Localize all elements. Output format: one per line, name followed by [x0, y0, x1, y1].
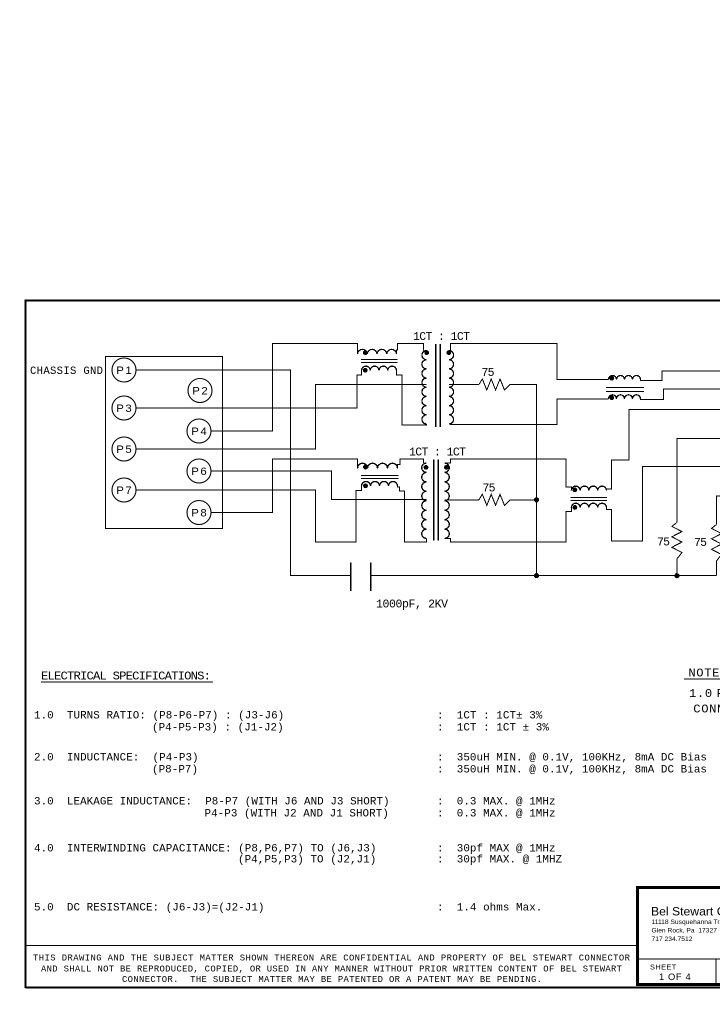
transformer T1 core [436, 344, 440, 427]
svg-text:75: 75 [657, 537, 670, 550]
svg-text:: 350uH MIN. @ 0.1V, 100KHz,: : 350uH MIN. @ 0.1V, 100KHz, 8mA DC Bias [437, 765, 707, 777]
wire P6 to T2 primary center tap [211, 471, 427, 500]
resistor R4 75 ohm [712, 525, 720, 562]
connector shield box [106, 357, 223, 529]
junction capacitor node [534, 573, 539, 578]
wire P4 to choke L1 top [211, 343, 358, 431]
wire P5 to T1 primary center tap [136, 385, 427, 450]
wire J line to resistor R3 [677, 439, 720, 523]
transformer T1 secondary dot [446, 350, 451, 355]
company address [652, 919, 720, 943]
svg-text:P4-P3 (WITH J2 AND J1 SHORT): P4-P3 (WITH J2 AND J1 SHORT) [205, 809, 389, 821]
svg-text:FOR: FOR [717, 687, 720, 701]
resistor R1 75 ohm [479, 379, 510, 390]
wire choke L2 top to T2 primary top [398, 459, 424, 469]
capacitor C1 plates [351, 563, 371, 592]
svg-text:1000pF, 2KV: 1000pF, 2KV [376, 599, 448, 612]
pin P4 [187, 419, 211, 443]
choke L4 top winding [571, 486, 606, 490]
svg-text:(P4,P5,P3) TO (J2,J1): (P4,P5,P3) TO (J2,J1) [238, 855, 376, 867]
svg-text:1.0: 1.0 [689, 687, 713, 701]
wire P3 to choke L1 bottom [136, 370, 362, 408]
resistor R3 75 ohm [672, 523, 682, 560]
wire T1 secondary center tap to resistor R1 [449, 384, 479, 386]
wire T2 secondary center tap to resistor R2 [445, 499, 480, 501]
svg-text:CONNECTOR: CONNECTOR [693, 703, 720, 717]
choke L2 core [361, 476, 399, 479]
svg-text:1.0 TURNS RATIO: (P8-P6-P7) :: 1.0 TURNS RATIO: (P8-P6-P7) : (J3-J6) [34, 711, 284, 723]
svg-text:P7: P7 [116, 485, 132, 497]
transformer T2 primary dot [424, 465, 429, 470]
transformer T1 secondary winding [449, 351, 454, 425]
wire J line to resistor R4 [717, 496, 720, 525]
svg-text:P8: P8 [191, 508, 207, 520]
svg-text:1CT : 1CT: 1CT : 1CT [409, 447, 466, 460]
pin P1 [112, 358, 136, 382]
transformer T2 secondary dot [444, 465, 449, 470]
pin P8 [187, 501, 211, 525]
svg-text:: 30pf MAX. @ 1MHZ: : 30pf MAX. @ 1MHZ [437, 855, 563, 867]
wire P7 to choke L2 bottom [136, 486, 362, 542]
wire P8 to choke L2 top [211, 459, 358, 513]
wire T1 secondary top to choke L3 [449, 344, 609, 380]
transformer T2 core [434, 460, 438, 541]
svg-text:75: 75 [482, 367, 495, 380]
choke L2 top winding [358, 463, 398, 468]
choke L3 polarity dot bottom [609, 395, 614, 400]
svg-text:: 0.3 MAX. @ 1MHz: : 0.3 MAX. @ 1MHz [437, 797, 556, 809]
wire choke L1 bottom to T1 primary bottom [397, 370, 427, 425]
transformer T1 primary dot [424, 350, 429, 355]
choke L4 polarity dot bottom [573, 505, 578, 510]
svg-text:: 350uH MIN. @ 0.1V, 100KHz,: : 350uH MIN. @ 0.1V, 100KHz, 8mA DC Bias [437, 753, 707, 765]
pin P6 [187, 459, 211, 483]
choke L3 top winding [609, 376, 641, 380]
electrical specifications list [34, 711, 707, 915]
svg-text:(P4-P5-P3) : (J1-J2): (P4-P5-P3) : (J1-J2) [152, 723, 284, 735]
wire choke L3 bottom to J output [641, 389, 720, 399]
wire T2 secondary top to choke L4 [445, 459, 572, 491]
svg-text:(P8-P7): (P8-P7) [152, 765, 198, 777]
choke L2 bottom winding [362, 482, 398, 487]
wire R1 to ground node [510, 385, 537, 500]
wire choke L3 top to J output [641, 371, 720, 380]
wire choke L1 top to T1 primary top [397, 343, 424, 354]
svg-text:: 1CT : 1CT± 3%: : 1CT : 1CT± 3% [437, 711, 543, 723]
svg-text:P2: P2 [192, 386, 208, 398]
transformer T2 primary winding [422, 463, 427, 539]
transformer T2 secondary winding [445, 463, 450, 539]
svg-text:: 0.3 MAX. @ 1MHz: : 0.3 MAX. @ 1MHz [437, 809, 556, 821]
choke L1 polarity dot top [363, 350, 368, 355]
wire R4 to ground node [716, 561, 718, 576]
svg-text:Bel Stewart Connector: Bel Stewart Connector [651, 905, 720, 919]
svg-text:75: 75 [483, 483, 496, 496]
svg-text:11118 Susquehanna Trail S: 11118 Susquehanna Trail S [652, 919, 720, 926]
svg-text:3.0 LEAKAGE INDUCTANCE: P8-P: 3.0 LEAKAGE INDUCTANCE: P8-P7 (WITH J6 A… [34, 797, 390, 809]
choke L1 polarity dot bottom [363, 368, 368, 373]
svg-text:THIS DRAWING AND THE SUBJECT M: THIS DRAWING AND THE SUBJECT MATTER SHOW… [33, 954, 631, 964]
choke L3 core [606, 388, 644, 392]
choke L4 polarity dot top [573, 487, 578, 492]
choke L4 bottom winding [571, 503, 606, 507]
pin P5 [112, 437, 136, 461]
wire R1 R2 junction to capacitor node [536, 500, 538, 576]
svg-text:5.0 DC RESISTANCE: (J6-J3)=(J: 5.0 DC RESISTANCE: (J6-J3)=(J2-J1) [34, 903, 265, 915]
title block border [636, 886, 720, 986]
wire T2 secondary bottom to choke L4 bottom [445, 508, 572, 542]
wire ground node line [371, 575, 717, 577]
choke L1 core [361, 360, 398, 363]
svg-text:AND SHALL NOT BE REPRODUCED, C: AND SHALL NOT BE REPRODUCED, COPIED, OR … [41, 965, 622, 975]
svg-text:1 OF 4: 1 OF 4 [659, 971, 691, 982]
wire choke L4 bottom to J output [607, 466, 720, 541]
svg-text:CHASSIS GND: CHASSIS GND [30, 366, 103, 378]
svg-text:1CT : 1CT: 1CT : 1CT [413, 331, 470, 344]
wire P1 to chassis capacitor [136, 370, 351, 576]
choke L3 polarity dot top [609, 376, 614, 381]
choke L1 top winding [358, 349, 397, 354]
svg-text:P4: P4 [191, 426, 207, 438]
svg-text:: 1.4 ohms Max.: : 1.4 ohms Max. [437, 903, 542, 915]
svg-text:P1: P1 [116, 365, 132, 377]
choke L1 bottom winding [362, 366, 397, 370]
svg-text:Glen Rock, Pa 17327: Glen Rock, Pa 17327 [652, 928, 718, 935]
svg-text:2.0 INDUCTANCE: (P4-P3): 2.0 INDUCTANCE: (P4-P3) [34, 753, 199, 765]
resistor R2 75 ohm [479, 494, 510, 505]
disclaimer text [33, 954, 631, 986]
junction R1 R2 node [534, 497, 539, 502]
pin P3 [112, 396, 136, 420]
choke L2 polarity dot bottom [363, 483, 368, 488]
svg-text:: 1CT : 1CT ± 3%: : 1CT : 1CT ± 3% [437, 723, 549, 735]
svg-text:P3: P3 [116, 403, 132, 415]
choke L4 core [571, 498, 608, 501]
svg-text:CONNECTOR. THE SUBJECT MATTER: CONNECTOR. THE SUBJECT MATTER MAY BE PAT… [122, 975, 542, 985]
svg-text:717 234.7512: 717 234.7512 [652, 936, 693, 943]
wire choke L4 top to J output [607, 410, 720, 491]
wire R2 to ground node [510, 499, 537, 501]
junction R3 node [674, 573, 679, 578]
pin P2 [188, 379, 212, 403]
wire choke L2 bottom to T2 primary bottom [398, 486, 427, 542]
choke L3 bottom winding [609, 395, 641, 399]
svg-text:P6: P6 [191, 466, 207, 478]
svg-text:P5: P5 [116, 444, 132, 456]
choke L2 polarity dot top [363, 465, 368, 470]
disclaimer box [26, 945, 638, 947]
transformer T1 primary winding [422, 351, 427, 425]
wire T1 secondary bottom to choke L3 bottom [449, 399, 609, 425]
pin P7 [112, 478, 136, 502]
svg-text:75: 75 [694, 537, 707, 550]
wire R3 to ground node [676, 559, 678, 576]
